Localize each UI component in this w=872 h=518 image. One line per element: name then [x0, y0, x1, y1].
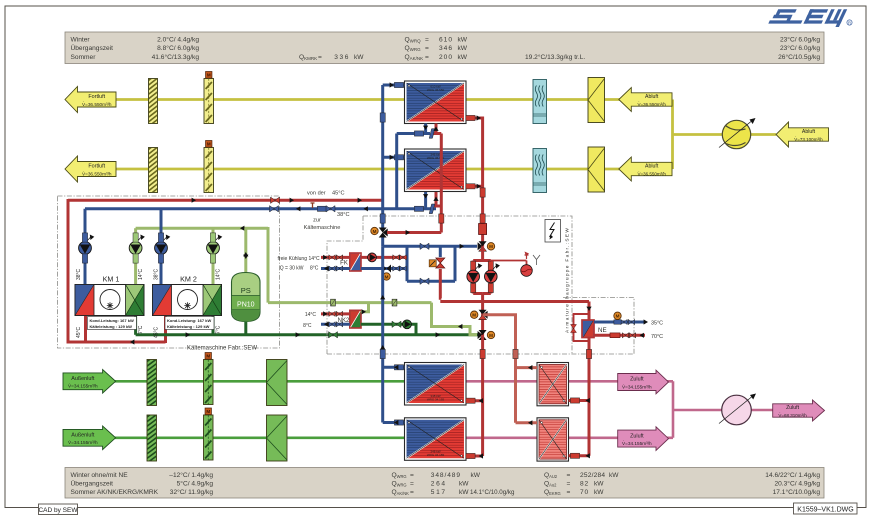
- damper K1 with actuator M row 1: [204, 72, 214, 124]
- pipe KM2 condenser return stub: [164, 316, 167, 344]
- svg-text:200: 200: [439, 54, 453, 61]
- svg-text:45°C: 45°C: [154, 326, 160, 338]
- valve cold main 1: [270, 206, 279, 212]
- pump P1: [467, 263, 482, 283]
- riser D hot from WRG1: [466, 118, 483, 246]
- pipe NE out 35C: [594, 321, 645, 324]
- svg-text:19.2°C/13.3g/kg tr.L.: 19.2°C/13.3g/kg tr.L.: [525, 53, 585, 61]
- svg-text:KM 2: KM 2: [180, 275, 197, 284]
- svg-text:70: 70: [580, 489, 589, 496]
- reheat coil EKRG1: [537, 363, 569, 406]
- arrow Zuluft row 4: [618, 427, 669, 451]
- svg-text:R: R: [848, 20, 851, 25]
- stub hot WRG3: [466, 399, 483, 402]
- valve chilled feed 1: [331, 299, 336, 306]
- arrow Zuluft row 3: [618, 370, 669, 394]
- pipe cold water 38C return main: [85, 207, 436, 210]
- svg-text:QWRQ: QWRQ: [405, 37, 422, 44]
- balancing valve riser D: [479, 224, 487, 235]
- header data table: [65, 32, 824, 64]
- riser A condenser water to WRG1: [381, 85, 384, 230]
- pipe NK2 supply 14C: [321, 312, 350, 315]
- NK2 stub from chilled feed: [361, 303, 369, 312]
- svg-text:252/284: 252/284: [580, 472, 605, 479]
- svg-text:35°C: 35°C: [651, 321, 663, 327]
- svg-text:2.0°C/ 4.4g/kg: 2.0°C/ 4.4g/kg: [157, 36, 199, 44]
- svg-text:Außenluft: Außenluft: [71, 376, 95, 382]
- bypass loop left leg: [406, 246, 409, 281]
- svg-text:Abluft: Abluft: [645, 94, 659, 100]
- svg-text:7°C: 7°C: [138, 325, 144, 334]
- stub coil EKRG1 supply: [516, 366, 538, 369]
- riser D lower to WRG3/4: [481, 354, 484, 456]
- svg-text:NE: NE: [598, 327, 607, 334]
- svg-text:QAU2: QAU2: [544, 472, 558, 479]
- svg-text:517: 517: [431, 489, 447, 496]
- bypass loop right leg: [454, 246, 457, 281]
- riser NE: [588, 302, 591, 321]
- pipe NK2 chilled feed: [268, 301, 432, 304]
- svg-text:23°C/ 6.0g/kg: 23°C/ 6.0g/kg: [780, 36, 820, 44]
- riser KM2 condenser supply: [160, 209, 163, 285]
- WRG1 bottom fittings: [397, 124, 442, 139]
- svg-text:PN10: PN10: [237, 302, 255, 309]
- svg-text:Fortluft: Fortluft: [88, 164, 105, 170]
- svg-text:V̇=34.155m³/h: V̇=34.155m³/h: [68, 383, 98, 389]
- svg-text:Kältemaschine Fabr.:SEW: Kältemaschine Fabr.:SEW: [187, 346, 257, 352]
- valve riser A: [380, 113, 385, 122]
- valve chilled return main: [329, 332, 338, 338]
- svg-text:=: =: [425, 37, 429, 44]
- valve FK return with M: [382, 265, 391, 281]
- exchanger NE: [582, 320, 607, 338]
- svg-text:17.1°C/10.0g/kg: 17.1°C/10.0g/kg: [773, 488, 821, 496]
- stub to WRG1 inlet: [383, 84, 405, 87]
- pump P2: [485, 263, 500, 283]
- dashed enclosure Armaturengruppe: [327, 216, 634, 354]
- riser KM1 evaporator supply: [134, 228, 137, 284]
- svg-text:Q = 30 kW: Q = 30 kW: [280, 266, 304, 272]
- svg-text:=: =: [567, 489, 571, 496]
- outlet damper row 2: [588, 147, 605, 192]
- arrow Fortluft 1: [65, 87, 116, 113]
- svg-text:Armaturenbaugruppe Fabr.:SEW: Armaturenbaugruppe Fabr.:SEW: [565, 227, 571, 333]
- riser KM2 evaporator supply: [212, 228, 215, 284]
- svg-text:=: =: [410, 481, 414, 488]
- filter F2 exhaust row 2: [149, 143, 158, 196]
- svg-text:348/489: 348/489: [431, 472, 461, 479]
- svg-text:Kond.Leistung: 167 kW: Kond.Leistung: 167 kW: [167, 318, 211, 323]
- svg-text:Außenluft: Außenluft: [71, 433, 95, 439]
- valve riser C at enclosure: [439, 214, 444, 223]
- inlet splitter row 4: [267, 415, 288, 461]
- pipe hot water 45C supply main: [68, 199, 383, 202]
- svg-text:kW: kW: [354, 54, 364, 61]
- svg-text:WRG 34.155: WRG 34.155: [427, 453, 445, 457]
- exchanger NK2: [338, 310, 361, 328]
- svg-text:kW: kW: [459, 489, 469, 496]
- arrow Fortluft 2: [65, 156, 116, 182]
- pump evaporator KM2: [207, 235, 223, 255]
- pipe chilled feed drop: [432, 303, 478, 335]
- svg-text:kW: kW: [458, 45, 468, 52]
- svg-text:QWRG: QWRG: [392, 472, 407, 479]
- svg-text:V̇=73.100m³/h: V̇=73.100m³/h: [794, 136, 823, 142]
- duct Aussenluft row 4: [113, 436, 405, 439]
- svg-text:kW: kW: [594, 489, 604, 496]
- damper K3 with M: [204, 353, 214, 405]
- svg-text:kW: kW: [458, 54, 468, 61]
- svg-text:38°C: 38°C: [337, 212, 350, 218]
- svg-text:Abluft: Abluft: [802, 129, 816, 135]
- svg-text:=: =: [318, 54, 322, 61]
- stub coil EKRG2 return: [569, 454, 590, 457]
- svg-text:Winter: Winter: [71, 37, 91, 44]
- 3way valve riser D with M: [478, 241, 495, 251]
- filter F4: [147, 410, 157, 463]
- stub coil EKRG1 return: [569, 399, 590, 402]
- svg-text:=: =: [410, 489, 414, 496]
- pipe hot water left drop: [68, 199, 166, 342]
- svg-text:QAK/NK: QAK/NK: [392, 489, 410, 496]
- duct Fortluft/Abluft row 2: [113, 168, 673, 171]
- arrow Abluft total: [776, 122, 829, 147]
- pipe chilled return 7C main: [136, 333, 479, 336]
- svg-text:zur: zur: [313, 218, 321, 224]
- stub to WRG4: [383, 421, 405, 424]
- expansion vessel MAG: [491, 252, 540, 277]
- svg-text:WRG 36.550: WRG 36.550: [427, 88, 445, 92]
- svg-text:264: 264: [431, 481, 447, 488]
- svg-text:336: 336: [334, 54, 350, 61]
- chiller KM 2: [153, 268, 222, 338]
- svg-text:23°C/ 6.0g/kg: 23°C/ 6.0g/kg: [780, 44, 820, 52]
- svg-text:Zuluft: Zuluft: [630, 377, 644, 383]
- svg-text:Sommer AK/NK/EKRG/KMRK: Sommer AK/NK/EKRG/KMRK: [71, 489, 159, 496]
- svg-text:45°C: 45°C: [76, 326, 82, 338]
- heat recovery exchanger WRG4: [405, 418, 467, 461]
- svg-text:Kälteleistung : 129 kW: Kälteleistung : 129 kW: [167, 324, 210, 329]
- pipe hot main to NE riser: [440, 300, 589, 303]
- svg-text:V̇=34.155m³/h: V̇=34.155m³/h: [622, 440, 652, 446]
- pipe chilled 14C header: [136, 227, 268, 230]
- arrow Zuluft total: [773, 400, 825, 421]
- svg-text:Sommer: Sommer: [71, 54, 97, 61]
- svg-text:5°C/ 4.9g/kg: 5°C/ 4.9g/kg: [177, 480, 214, 488]
- svg-text:V̇=34.155m³/h: V̇=34.155m³/h: [68, 439, 98, 445]
- svg-text:Kältemaschine: Kältemaschine: [304, 225, 341, 231]
- drawing number box K1559-VK1.DWG: [794, 503, 858, 514]
- svg-text:14.6/22°C/ 1.4g/kg: 14.6/22°C/ 1.4g/kg: [765, 471, 820, 479]
- expansion tank PS PN10: [232, 228, 261, 335]
- svg-text:V̇=36.550m³/h: V̇=36.550m³/h: [637, 101, 666, 107]
- stub to WRG2 inlet: [383, 156, 405, 159]
- 3way free cooling with M: [478, 330, 495, 340]
- riser to lower WRG: [481, 335, 484, 354]
- svg-text:=: =: [410, 472, 414, 479]
- pump chilled KM1: [79, 235, 95, 255]
- svg-text:610: 610: [439, 37, 453, 44]
- svg-text:Kond.Leistung: 167 kW: Kond.Leistung: 167 kW: [90, 318, 134, 323]
- filter F1 exhaust row 1: [149, 74, 158, 127]
- pipe NK2 warm return: [361, 324, 416, 335]
- svg-text:14°C: 14°C: [309, 256, 321, 262]
- riser KM2 evaporator return: [212, 316, 215, 335]
- NE bypass: [574, 314, 590, 341]
- svg-text:QAu2: QAu2: [544, 481, 557, 488]
- humidifier B2 row 2: [533, 149, 547, 193]
- valve cold main 2: [317, 206, 326, 211]
- svg-text:8°C: 8°C: [310, 266, 319, 272]
- svg-text:=: =: [425, 45, 429, 52]
- pipe FK supply 14C: [321, 256, 350, 259]
- pipe to reheat coils riser E: [483, 315, 516, 354]
- svg-text:32°C/ 11.9g/kg: 32°C/ 11.9g/kg: [170, 488, 214, 496]
- SEW logo: [767, 9, 848, 27]
- svg-text:14°C: 14°C: [305, 312, 317, 318]
- svg-text:QKMRK: QKMRK: [299, 54, 317, 61]
- svg-text:V̇=34.155m³/h: V̇=34.155m³/h: [622, 384, 652, 390]
- riser E to coils: [514, 354, 517, 423]
- filter F3: [147, 355, 157, 408]
- sensor on main: [311, 203, 315, 208]
- svg-text:Winter ohne/mit NE: Winter ohne/mit NE: [71, 472, 129, 479]
- svg-text:=: =: [567, 481, 571, 488]
- pump evaporator KM1: [129, 235, 145, 255]
- riser NE lower: [588, 354, 591, 456]
- svg-text:QWRG: QWRG: [405, 45, 422, 52]
- svg-text:–12°C/ 1.4g/kg: –12°C/ 1.4g/kg: [169, 471, 213, 479]
- injection drop with valve: [429, 246, 445, 298]
- CAD by SEW title box: [38, 504, 78, 515]
- dashed enclosure Kaeltemaschine: [58, 196, 280, 348]
- damper K2 with actuator M row 2: [204, 141, 214, 193]
- arrow Aussenluft 4: [63, 426, 116, 450]
- pipe blue bypass top: [383, 245, 477, 248]
- valve riser D at enclosure: [480, 214, 485, 223]
- chiller KM 1: [75, 268, 144, 338]
- duct merge to supply fan: [673, 381, 774, 438]
- svg-text:FK: FK: [340, 261, 348, 267]
- pipe mixed to riser C: [387, 231, 441, 234]
- 3way mixing NE circuit with M: [471, 310, 488, 320]
- svg-text:Kälteleistung : 129 kW: Kälteleistung : 129 kW: [90, 324, 133, 329]
- svg-text:kW: kW: [594, 481, 604, 488]
- footer data table: [65, 468, 824, 499]
- svg-text:346: 346: [439, 45, 453, 52]
- WRG2 bottom fittings: [414, 192, 441, 214]
- pipe FK return 8C: [321, 267, 350, 270]
- riser NE down to coils: [588, 338, 591, 355]
- svg-text:CAD by SEW: CAD by SEW: [38, 507, 78, 514]
- svg-text:=: =: [425, 54, 429, 61]
- svg-text:41.6°C/13.3g/kg: 41.6°C/13.3g/kg: [152, 53, 200, 61]
- svg-text:38°C: 38°C: [76, 268, 82, 280]
- heat recovery exchanger WRG3: [405, 363, 467, 406]
- pump group legs: [471, 261, 494, 336]
- valve hot main: [271, 197, 280, 203]
- heat recovery exchanger WRG1: [405, 81, 467, 124]
- svg-text:82: 82: [580, 481, 589, 488]
- pipe NK2 return 8C: [321, 323, 350, 326]
- svg-text:Übergangszeit: Übergangszeit: [71, 480, 114, 488]
- svg-text:V̇=36.550m³/h: V̇=36.550m³/h: [637, 171, 666, 177]
- pump chilled KM2: [155, 235, 171, 255]
- outlet damper row 1: [588, 78, 605, 123]
- riser C from WRG coils: [440, 134, 443, 233]
- svg-text:20.3°C/ 4.9g/kg: 20.3°C/ 4.9g/kg: [774, 480, 820, 488]
- svg-text:kW: kW: [471, 472, 481, 479]
- svg-text:26°C/10.5g/kg: 26°C/10.5g/kg: [778, 53, 820, 61]
- svg-text:45°C: 45°C: [332, 191, 345, 197]
- damper K4 with M: [204, 408, 214, 460]
- pipe FK to riser: [361, 256, 407, 259]
- svg-text:70°C: 70°C: [651, 334, 663, 340]
- valve cold main 3: [326, 206, 335, 212]
- duct Aussenluft row 3: [113, 380, 405, 383]
- pipe NE in 70C: [594, 334, 645, 337]
- svg-text:kW: kW: [459, 481, 469, 488]
- svg-text:Abluft: Abluft: [645, 164, 659, 170]
- svg-text:7°C: 7°C: [216, 325, 222, 334]
- duct Zuluft row 4: [466, 436, 673, 439]
- stub to WRG3: [383, 366, 405, 369]
- svg-text:38°C: 38°C: [154, 268, 160, 280]
- svg-text:QAK/NK: QAK/NK: [405, 54, 424, 61]
- svg-text:KM 1: KM 1: [103, 275, 120, 284]
- svg-text:kW: kW: [609, 472, 619, 479]
- duct Zuluft row 3: [466, 380, 673, 383]
- arrow Abluft row 2: [619, 157, 672, 181]
- reheat coil EKRG2: [537, 418, 569, 461]
- svg-text:von der: von der: [307, 191, 326, 197]
- duct merge to exhaust fan: [673, 100, 777, 170]
- svg-text:V̇=36.550m³/h: V̇=36.550m³/h: [82, 171, 112, 177]
- pump FK: [368, 253, 377, 262]
- svg-text:K1559–VK1.DWG: K1559–VK1.DWG: [797, 506, 853, 513]
- heat recovery exchanger WRG2: [405, 149, 467, 192]
- svg-text:QWRG: QWRG: [392, 481, 407, 488]
- pump group supply drop: [481, 246, 484, 260]
- riser KM1 condenser supply: [84, 209, 87, 285]
- bypass loop bottom: [407, 280, 455, 283]
- svg-text:PS: PS: [241, 286, 251, 295]
- svg-text:14°C: 14°C: [216, 268, 222, 280]
- exhaust fan: [719, 118, 756, 149]
- exchanger FK: [340, 253, 361, 271]
- pump NK2 return: [403, 320, 412, 329]
- riser KM1 evaporator return: [134, 316, 137, 335]
- valve riser A lower enclosure: [380, 349, 385, 358]
- svg-text:V̇=68.310m³/h: V̇=68.310m³/h: [778, 412, 807, 418]
- svg-text:Fortluft: Fortluft: [88, 94, 105, 100]
- stub coil EKRG2 supply: [516, 421, 538, 424]
- stub hot WRG4: [466, 455, 483, 458]
- riser A to lower WRG: [381, 246, 384, 422]
- humidifier B1 row 1: [533, 80, 547, 124]
- stub hot WRG2: [466, 185, 483, 188]
- arrow Aussenluft 3: [63, 370, 116, 394]
- pipe chilled drop to NK area: [267, 227, 270, 303]
- svg-text:14.1°C/10.0g/kg: 14.1°C/10.0g/kg: [470, 489, 515, 496]
- electric heater symbol box: [545, 220, 561, 243]
- inlet splitter row 3: [267, 360, 288, 406]
- svg-text:14°C: 14°C: [138, 268, 144, 280]
- svg-text:8°C: 8°C: [303, 323, 312, 329]
- svg-text:V̇=36.550m³/h: V̇=36.550m³/h: [82, 101, 112, 107]
- duct Fortluft/Abluft row 1: [113, 98, 673, 101]
- svg-text:kW: kW: [458, 37, 468, 44]
- svg-text:=: =: [567, 472, 571, 479]
- svg-text:Zuluft: Zuluft: [630, 433, 644, 439]
- valve chilled feed 2: [392, 299, 397, 306]
- svg-text:WRG 34.155: WRG 34.155: [427, 398, 445, 402]
- svg-text:8.8°C/ 6.0g/kg: 8.8°C/ 6.0g/kg: [157, 44, 199, 52]
- svg-text:freie Kühlung: freie Kühlung: [278, 256, 308, 262]
- svg-text:Zuluft: Zuluft: [786, 405, 800, 411]
- arrow Abluft row 1: [619, 88, 672, 112]
- riser B between fittings: [395, 134, 398, 209]
- valve riser A at enclosure: [380, 214, 385, 223]
- 3way valve riser A with M: [371, 227, 388, 237]
- pipe KM1 condenser return stub: [84, 316, 87, 344]
- supply fan: [719, 394, 756, 425]
- svg-text:Übergangszeit: Übergangszeit: [71, 44, 114, 52]
- svg-text:QEKRG: QEKRG: [544, 489, 561, 496]
